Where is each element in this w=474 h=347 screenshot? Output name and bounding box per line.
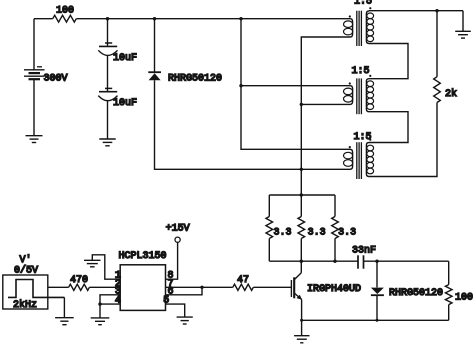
- svg-text:47: 47: [237, 275, 249, 286]
- transformer T1 1:5 secondary winding: [366, 7, 373, 43]
- svg-text:1:5: 1:5: [354, 132, 372, 143]
- svg-text:RHRG50120: RHRG50120: [389, 288, 443, 299]
- svg-text:2kHz: 2kHz: [13, 299, 37, 311]
- node diode/top-rail junction: [153, 17, 156, 20]
- wire T1 secondary top to ground stub: [369, 10, 463, 12]
- svg-text:0/5V: 0/5V: [14, 264, 38, 276]
- capacitor 33nF snubber: [352, 245, 376, 268]
- battery 300V: [24, 67, 68, 85]
- node emitter/ground: [300, 319, 303, 322]
- resistor 47 gate: [233, 284, 254, 290]
- svg-text:10uF: 10uF: [113, 53, 137, 64]
- diode D2 RHRG50120 (snubber, cathode down): [371, 261, 443, 320]
- wire T2 primary top: [241, 85, 350, 87]
- wire 47 to gate: [253, 286, 291, 288]
- svg-text:3.3: 3.3: [274, 227, 292, 238]
- wire T3 primary bottom: [301, 168, 350, 170]
- resistor 100 (top left): [53, 15, 77, 22]
- wire between caps: [107, 55, 109, 91]
- transformer T2 1:5 secondary winding: [366, 75, 373, 112]
- IC U1 HCPL3150: [119, 251, 167, 310]
- transformer T1 1:5 core: [357, 11, 362, 46]
- resistor 100 snubber: [445, 261, 473, 320]
- svg-text:+15V: +15V: [166, 224, 190, 235]
- transformer T3 1:5 secondary winding: [366, 139, 373, 177]
- wire diode branch top: [154, 19, 156, 72]
- wire source output to 470: [48, 286, 69, 288]
- svg-text:HCPL3150: HCPL3150: [119, 251, 167, 262]
- wire pin8 to +15V: [166, 242, 178, 279]
- node left-rail/T2-primary junction: [239, 84, 242, 87]
- node diode/bottom rail: [376, 319, 379, 322]
- node left-rail/top-rail junction: [239, 17, 242, 20]
- ground secondary top right: [462, 11, 464, 32]
- wire top rail from battery to T1 primary: [34, 18, 350, 20]
- wire emitter bottom rail: [302, 319, 449, 321]
- transformer T2 1:5 core: [357, 78, 362, 114]
- svg-text:1:5: 1:5: [352, 66, 370, 77]
- node caps/top-rail junction: [106, 17, 109, 20]
- resistor R 3.3 (right): [332, 195, 356, 261]
- wire caps branch top: [107, 19, 109, 46]
- svg-text:300V: 300V: [44, 73, 68, 84]
- node T2 primary bottom junction: [300, 103, 303, 106]
- svg-text:RHRG50120: RHRG50120: [168, 73, 222, 84]
- svg-text:3.3: 3.3: [308, 227, 326, 238]
- wire battery top: [33, 19, 35, 70]
- source V' pulse box: [3, 254, 65, 311]
- wire pin7 to gate resistor: [166, 286, 233, 288]
- node bank bottom / snubber cap: [333, 260, 336, 263]
- wire pin6 tie up: [166, 287, 203, 295]
- wire link T2 sec bottom to T3 sec top: [369, 112, 408, 143]
- wire battery bottom: [33, 79, 35, 136]
- wire link T1 sec bottom to T2 sec top: [369, 44, 408, 79]
- transformer T3 1:5 core: [357, 142, 362, 179]
- resistor R 3.3 (middle): [298, 195, 326, 261]
- svg-text:1:5: 1:5: [354, 0, 372, 7]
- node 2k junction: [435, 9, 438, 12]
- wire T2 primary bottom: [301, 103, 350, 105]
- wire cap to 100 resistor: [364, 260, 449, 262]
- wire resistor bank bottom rail: [269, 260, 358, 262]
- wire pin5 to ground: [166, 304, 185, 317]
- ground source: [55, 318, 74, 325]
- node pins6-7 tie: [200, 286, 203, 289]
- capacitor C1 10uF: [98, 43, 137, 64]
- wire resistor bank top rail: [269, 194, 335, 196]
- svg-text:10uF: 10uF: [113, 98, 137, 109]
- svg-text:IRGPH40UD: IRGPH40UD: [307, 284, 361, 295]
- transistor Q1 IRGPH40UD (IGBT): [291, 261, 361, 320]
- ground caps: [99, 139, 115, 146]
- transformer T3 1:5 primary winding: [344, 146, 353, 169]
- diode D1 RHRG50120 (freewheel, cathode up): [148, 72, 222, 84]
- wire 2k to T3 secondary bottom: [369, 103, 437, 177]
- node bank bottom / collector: [300, 260, 303, 263]
- wire 470 to pin2: [89, 286, 120, 288]
- wire pin3: [100, 295, 120, 304]
- resistor 2k: [436, 11, 438, 77]
- node pin3/pin4: [98, 302, 101, 305]
- wire diode anode down and right to collector rail: [155, 80, 302, 169]
- node snubber diode junction: [375, 260, 378, 263]
- svg-text:470: 470: [70, 275, 88, 286]
- resistor R 3.3 (left): [266, 195, 292, 261]
- node T3 primary bottom junction: [300, 168, 303, 171]
- ground pin5: [177, 317, 193, 324]
- wire left rail down to T3 primary top: [241, 19, 350, 150]
- svg-text:V': V': [20, 254, 32, 266]
- wire cap2 to ground: [107, 101, 109, 139]
- ground emitter: [301, 320, 303, 335]
- ground pin1: [84, 260, 101, 267]
- wire pin4 to ground: [100, 304, 120, 318]
- svg-text:100: 100: [56, 6, 74, 17]
- svg-text:2k: 2k: [445, 88, 457, 100]
- transformer T2 1:5 primary winding: [344, 82, 353, 104]
- node collector rail / resistor bank top: [300, 193, 303, 196]
- svg-text:3.3: 3.3: [338, 227, 356, 238]
- wire source return: [63, 297, 65, 317]
- svg-text:4: 4: [115, 296, 121, 307]
- ground battery: [26, 136, 43, 143]
- terminal +15V: [166, 224, 190, 243]
- wire pin1 to gnd arm: [92, 255, 120, 279]
- wire T1 primary bottom to center rail: [301, 37, 350, 195]
- svg-text:33nF: 33nF: [352, 245, 376, 256]
- ground pins 3-4: [91, 318, 110, 325]
- capacitor C2 10uF: [98, 88, 137, 109]
- transformer T1 1:5 primary winding: [344, 15, 353, 37]
- resistor 470: [69, 284, 90, 290]
- svg-text:100: 100: [455, 292, 473, 303]
